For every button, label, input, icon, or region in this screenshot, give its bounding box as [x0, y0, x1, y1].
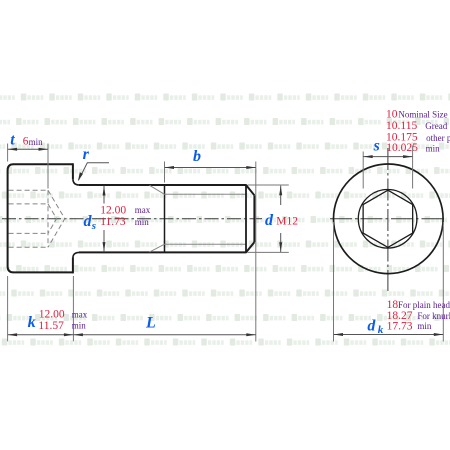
- head outer circle: [334, 164, 444, 274]
- hidden drill cone inner: [48, 204, 57, 234]
- svg-text:k: k: [28, 314, 36, 331]
- hidden drill cone outer: [48, 190, 65, 247]
- dimension s extension right: [412, 146, 414, 189]
- socket hexagon: [363, 190, 413, 247]
- svg-text:min: min: [135, 217, 150, 227]
- svg-text:M12: M12: [276, 215, 298, 227]
- svg-text:12.00: 12.00: [39, 309, 65, 321]
- dimension L arrow right: [246, 333, 256, 336]
- dimension b extension left: [164, 162, 166, 183]
- svg-text:min: min: [72, 321, 87, 331]
- dimension ds arrow down: [103, 242, 106, 252]
- dimension s arrow right: [403, 155, 413, 158]
- thread minor bottom: [165, 243, 247, 245]
- dimension L line: [73, 334, 255, 336]
- dimension s extension left: [362, 152, 364, 189]
- svg-text:k: k: [378, 324, 384, 336]
- dimension s arrow left: [363, 155, 373, 158]
- svg-text:11.57: 11.57: [38, 320, 64, 332]
- dimension k extension right: [72, 276, 74, 341]
- svg-text:r: r: [83, 146, 90, 163]
- thread start line: [164, 185, 166, 252]
- dimension t arrow right: [39, 148, 49, 151]
- hidden socket line lower inner: [9, 232, 48, 234]
- dimension k arrow left: [8, 333, 18, 336]
- dimension dk line: [334, 334, 444, 336]
- dimension dk arrow right: [434, 333, 444, 336]
- dimension d line lower: [280, 233, 282, 252]
- shank bottom edge: [79, 251, 247, 253]
- dimension t line: [8, 148, 48, 150]
- head bearing face upper: [72, 163, 74, 179]
- hidden socket line top (hex corner): [9, 189, 48, 191]
- svg-text:min: min: [29, 137, 44, 147]
- svg-text:12.00: 12.00: [100, 204, 126, 216]
- svg-text:max: max: [72, 309, 88, 319]
- svg-text:d: d: [367, 317, 376, 334]
- dimension t extension right: [47, 144, 49, 189]
- dimension ds line upper: [103, 186, 105, 204]
- svg-text:min: min: [426, 143, 441, 153]
- chamfer start line: [245, 185, 247, 252]
- end view horizontal centerline: [330, 218, 447, 220]
- dimension s line: [363, 156, 412, 158]
- leader r: [79, 163, 109, 180]
- shank top edge: [79, 184, 247, 186]
- thread runout top: [150, 185, 165, 194]
- dimension dk extension left: [333, 222, 335, 342]
- svg-text:other p: other p: [426, 133, 450, 143]
- dimension d extension bottom: [248, 251, 289, 253]
- thread runout bottom: [150, 244, 165, 252]
- fillet r bottom: [73, 252, 79, 257]
- dimension L arrow left: [73, 333, 83, 336]
- svg-text:s: s: [91, 220, 96, 232]
- socket circle: [358, 190, 417, 249]
- dimension d extension top: [248, 184, 289, 186]
- chamfer top diagonal: [246, 185, 254, 195]
- svg-text:s: s: [373, 137, 380, 154]
- svg-text:10: 10: [386, 108, 398, 120]
- svg-text:Gread: Gread: [425, 121, 447, 131]
- dimension k line: [8, 334, 74, 336]
- svg-text:For plain head: For plain head: [398, 300, 450, 310]
- dimension d arrow down: [279, 242, 282, 252]
- fillet r top: [73, 179, 79, 185]
- dimension b line: [165, 167, 256, 169]
- hidden socket bottom vertical: [47, 190, 49, 247]
- svg-text:11.73: 11.73: [100, 216, 126, 228]
- leader r arrow: [78, 172, 83, 181]
- dimension b arrow left: [165, 166, 175, 169]
- watermark field: [0, 94, 450, 346]
- svg-text:10.175: 10.175: [386, 132, 418, 144]
- dimension k arrow right: [64, 333, 74, 336]
- dimension t extension left: [7, 144, 9, 162]
- svg-text:L: L: [145, 315, 156, 332]
- svg-text:17.73: 17.73: [387, 321, 413, 333]
- svg-text:d: d: [265, 212, 274, 229]
- svg-text:t: t: [10, 132, 15, 149]
- chamfer bottom diagonal: [246, 242, 254, 252]
- svg-text:max: max: [135, 205, 151, 215]
- shared extension line at bolt tip: [255, 162, 257, 342]
- hidden socket line upper inner: [9, 203, 48, 205]
- svg-text:For knurled: For knurled: [417, 311, 450, 321]
- head bearing face lower: [72, 258, 74, 274]
- tip face: [253, 195, 255, 242]
- dimension d line upper: [280, 186, 282, 205]
- dimension ds line lower: [103, 230, 105, 252]
- svg-text:10.025: 10.025: [386, 142, 418, 154]
- svg-text:Nominal Size: Nominal Size: [398, 110, 447, 120]
- dimension dk extension right: [442, 222, 444, 342]
- dimension t arrow left: [8, 148, 18, 151]
- bolt head outline: [8, 164, 73, 272]
- end view vertical centerline: [387, 148, 389, 291]
- dimension ds arrow up: [103, 186, 106, 196]
- dimension d arrow up: [279, 186, 282, 196]
- hidden socket line bottom (hex corner): [9, 246, 48, 248]
- dimension dk arrow left: [334, 333, 344, 336]
- thread minor top: [165, 193, 247, 195]
- dimension k extension left: [7, 276, 9, 341]
- svg-text:10.115: 10.115: [386, 120, 417, 132]
- centerline main view: [2, 218, 262, 220]
- svg-text:b: b: [193, 148, 201, 165]
- dimension b arrow right: [246, 166, 256, 169]
- svg-text:min: min: [417, 321, 432, 331]
